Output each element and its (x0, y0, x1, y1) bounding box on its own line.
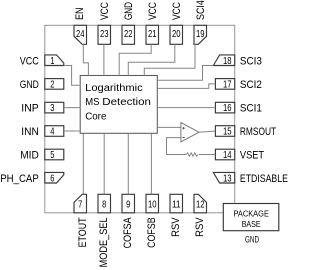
svg-text:Core: Core (85, 111, 107, 122)
pin 1 label VCC (20, 55, 39, 67)
pin 23 label VCC (99, 2, 111, 20)
wire pin 10 COFSB to core (150, 133, 152, 194)
svg-text:24: 24 (76, 29, 85, 40)
pin 21 label VCC (147, 2, 159, 20)
pin 1 (VCC) box (45, 55, 64, 67)
pin 2 (GND) box (45, 79, 64, 91)
wire pin 1 VCC to core (64, 66, 81, 86)
wire pin 16 SCI1 to core (157, 107, 215, 109)
pin 24 label EN (74, 7, 86, 20)
wire pin 18 SCI3 to core (157, 66, 213, 81)
svg-text:BASE: BASE (242, 220, 261, 229)
svg-text:4: 4 (50, 127, 54, 138)
pin 3 label INP (21, 103, 39, 115)
svg-text:VCC: VCC (20, 55, 39, 67)
svg-text:ETDISABLE: ETDISABLE (240, 173, 288, 185)
wire pin 19 SCI4 to core (144, 44, 195, 75)
pin 7 label ETOUT (77, 217, 89, 247)
svg-text:SCI2: SCI2 (240, 79, 262, 91)
pin 24 (EN) box (74, 25, 87, 44)
pin 22 label GND (123, 2, 135, 20)
svg-text:20: 20 (172, 29, 181, 40)
svg-text:VCC: VCC (171, 2, 183, 20)
pin 16 label SCI1 (240, 103, 262, 115)
svg-text:14: 14 (223, 150, 232, 161)
svg-text:8: 8 (102, 199, 106, 210)
svg-text:EN: EN (74, 7, 86, 20)
svg-text:1: 1 (50, 56, 54, 67)
pin 12 (RSV) box (194, 194, 207, 213)
wire pin 9 COFSA to core (127, 133, 129, 194)
pin 9 label COFSA (122, 217, 134, 249)
svg-text:RSV: RSV (194, 217, 206, 237)
svg-text:VSET: VSET (240, 150, 265, 162)
IC body outline (45, 25, 235, 213)
svg-text:INP: INP (21, 103, 39, 115)
pin 12 label RSV (194, 217, 206, 237)
svg-text:MID: MID (20, 150, 39, 162)
svg-text:9: 9 (126, 199, 130, 210)
wire pin 7 ETOUT to core (82, 133, 84, 194)
svg-text:21: 21 (148, 29, 157, 40)
svg-text:15: 15 (223, 127, 232, 138)
pin 15 label RMSOUT (240, 126, 277, 138)
wire op-amp output to pin 15 RMSOUT (199, 131, 215, 132)
pin 19 (SCI4) box (194, 25, 207, 44)
resistor R1 (186, 153, 198, 156)
pin 18 (SCI3) box (213, 55, 234, 67)
svg-text:PACKAGE: PACKAGE (233, 209, 269, 218)
svg-text:MODE_SEL: MODE_SEL (98, 217, 110, 267)
package base label GND (245, 234, 259, 244)
svg-text:6: 6 (50, 173, 54, 184)
wire pin 21 VCC to core (119, 44, 151, 75)
pin 4 label INN (21, 126, 39, 138)
pin 5 label MID (20, 150, 39, 162)
svg-text:22: 22 (124, 29, 133, 40)
pin 19 label SCI4 (195, 0, 207, 20)
pin 7 (ETOUT) box (74, 194, 87, 213)
pin 20 (VCC) box (170, 25, 183, 44)
pin 8 (MODE_SEL) box (98, 194, 111, 213)
wire pin 20 VCC to core (128, 44, 175, 75)
svg-text:2: 2 (50, 80, 54, 91)
svg-text:17: 17 (223, 80, 232, 91)
svg-text:RMSOUT: RMSOUT (240, 126, 277, 138)
logarithmic MS detection core block U1 (80, 76, 157, 134)
pin 13 label ETDISABLE (240, 173, 288, 185)
pin 10 (COFSB) box (146, 194, 159, 213)
svg-text:Logarithmic: Logarithmic (85, 83, 143, 94)
pin 8 label MODE_SEL (98, 217, 110, 267)
svg-text:23: 23 (100, 29, 109, 40)
svg-text:12: 12 (196, 199, 205, 210)
svg-text:GND: GND (20, 79, 39, 91)
svg-text:ETOUT: ETOUT (77, 217, 89, 247)
svg-text:COFSB: COFSB (146, 217, 158, 248)
svg-text:INN: INN (21, 126, 39, 138)
svg-text:19: 19 (196, 29, 205, 40)
wire pin 24 EN to core (83, 44, 88, 75)
op-amp U2 (181, 123, 199, 142)
svg-text:PH_CAP: PH_CAP (0, 173, 39, 185)
pin 6 (PH_CAP) box (45, 172, 64, 184)
pin 6 label PH_CAP (0, 173, 39, 185)
svg-text:SCI4: SCI4 (195, 0, 207, 20)
svg-text:GND: GND (123, 2, 135, 20)
pin 4 (INN) box (45, 126, 64, 138)
pin 11 (RSV) box (170, 194, 183, 213)
wire pin 23 VCC to core (103, 44, 105, 75)
pin 18 label SCI3 (240, 55, 262, 67)
pin 22 (GND) box (122, 25, 135, 44)
wire pin 8 MODE_SEL to core (103, 133, 105, 194)
svg-text:SCI3: SCI3 (240, 55, 262, 67)
wire pin 3 INP to core (64, 107, 81, 109)
pin 11 label RSV (170, 217, 182, 237)
svg-text:GND: GND (245, 234, 259, 244)
pin 3 (INP) box (45, 102, 64, 114)
svg-text:Detection: Detection (102, 97, 151, 108)
svg-text:13: 13 (223, 173, 232, 184)
pin 16 (SCI1) box (215, 102, 234, 114)
svg-text:VCC: VCC (99, 2, 111, 20)
pin 14 (VSET) box (215, 149, 234, 161)
wire core to op-amp noninverting input (157, 126, 181, 128)
wire pin 17 SCI2 to core (157, 84, 215, 89)
pin 14 label VSET (240, 150, 265, 162)
svg-text:11: 11 (172, 199, 181, 210)
svg-text:VCC: VCC (147, 2, 159, 20)
pin 2 label GND (20, 79, 39, 91)
svg-text:7: 7 (78, 199, 82, 210)
wire resistor to pin 14 VSET (199, 154, 215, 156)
pin 15 (RMSOUT) box (215, 126, 234, 138)
package base paddle (223, 204, 278, 231)
svg-text:SCI1: SCI1 (240, 103, 262, 115)
pin 17 (SCI2) box (215, 79, 234, 91)
svg-text:MS: MS (85, 97, 100, 108)
wire pin 4 INN to core (64, 130, 81, 132)
svg-text:18: 18 (223, 56, 232, 67)
svg-text:3: 3 (50, 103, 54, 114)
svg-text:COFSA: COFSA (122, 217, 134, 249)
pin 21 (VCC) box (146, 25, 159, 44)
pin 20 label VCC (171, 2, 183, 20)
pin 13 (ETDISABLE) box (213, 172, 234, 184)
pin 10 label COFSB (146, 217, 158, 248)
pin 23 (VCC) box (98, 25, 111, 44)
svg-text:5: 5 (50, 150, 54, 161)
wire op-amp inverting input feedback (167, 138, 187, 155)
pin 9 (COFSA) box (122, 194, 135, 213)
svg-text:10: 10 (148, 199, 157, 210)
pin 17 label SCI2 (240, 79, 262, 91)
pin 5 (MID) box (45, 149, 64, 161)
svg-text:RSV: RSV (170, 217, 182, 237)
svg-text:16: 16 (223, 103, 232, 114)
